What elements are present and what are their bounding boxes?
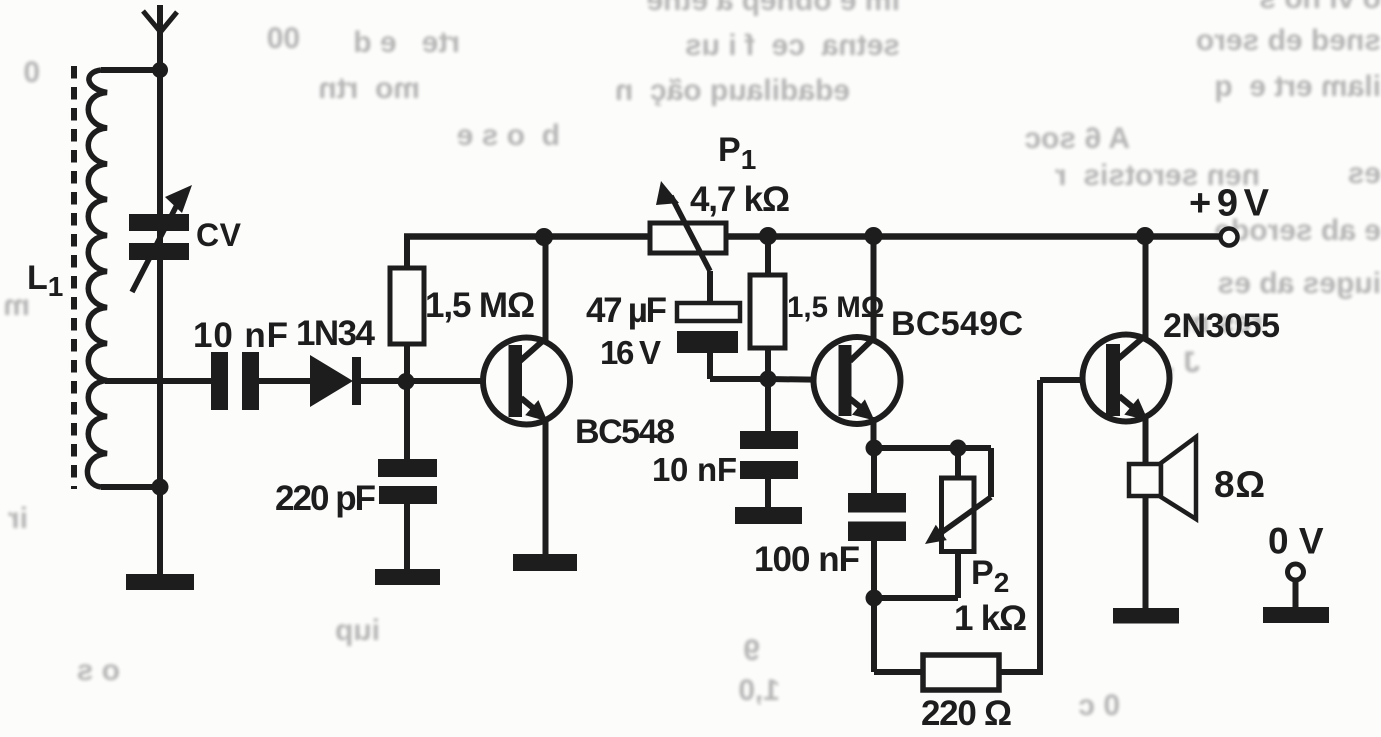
svg-text:CV: CV xyxy=(196,217,242,253)
svg-text:8 Ω: 8 Ω xyxy=(1214,464,1265,505)
svg-text:4,7 kΩ: 4,7 kΩ xyxy=(690,180,790,219)
svg-text:iup: iup xyxy=(335,614,380,647)
svg-text:1 kΩ: 1 kΩ xyxy=(954,599,1027,638)
svg-text:o s: o s xyxy=(77,654,120,687)
svg-text:im e obnep a etne: im e obnep a etne xyxy=(647,0,900,17)
svg-text:edadilauq oãç n: edadilauq oãç n xyxy=(615,74,850,107)
svg-text:2N3055: 2N3055 xyxy=(1163,307,1280,345)
svg-text:00: 00 xyxy=(267,22,300,55)
svg-text:47 µF: 47 µF xyxy=(586,291,667,330)
svg-text:0 V: 0 V xyxy=(1268,521,1324,562)
svg-text:16 V: 16 V xyxy=(600,334,661,371)
svg-text:1,0: 1,0 xyxy=(738,674,780,707)
svg-text:0 c: 0 c xyxy=(1078,689,1120,722)
svg-text:1,5 MΩ: 1,5 MΩ xyxy=(787,291,884,324)
svg-text:9: 9 xyxy=(743,634,760,667)
svg-text:ir: ir xyxy=(8,502,28,535)
svg-text:0: 0 xyxy=(23,56,40,89)
svg-text:BC549C: BC549C xyxy=(891,305,1023,343)
svg-text:+ 9 V: + 9 V xyxy=(1189,183,1270,225)
svg-text:setna ce f i us: setna ce f i us xyxy=(685,29,900,62)
svg-text:iuges ab es: iuges ab es xyxy=(1218,267,1381,300)
svg-text:220 Ω: 220 Ω xyxy=(921,694,1012,733)
svg-text:rte e d: rte e d xyxy=(353,26,460,59)
svg-text:220 pF: 220 pF xyxy=(275,479,376,518)
svg-text:BC548: BC548 xyxy=(575,413,675,451)
svg-text:100 nF: 100 nF xyxy=(754,540,860,579)
svg-text:1N34: 1N34 xyxy=(296,314,376,353)
svg-text:mo rtn: mo rtn xyxy=(318,72,420,105)
svg-text:o vi no s: o vi no s xyxy=(1259,0,1381,15)
svg-text:es: es xyxy=(1348,157,1381,190)
svg-text:1,5 MΩ: 1,5 MΩ xyxy=(425,286,535,325)
svg-text:b o s e: b o s e xyxy=(457,119,560,152)
svg-text:ilam ert e q: ilam ert e q xyxy=(1214,70,1381,103)
svg-text:A 6 soc: A 6 soc xyxy=(1024,122,1130,155)
svg-text:10 nF: 10 nF xyxy=(193,316,288,355)
svg-text:m: m xyxy=(3,289,30,322)
svg-text:sned eb sero: sned eb sero xyxy=(1196,24,1381,57)
svg-text:10 nF: 10 nF xyxy=(652,451,737,488)
